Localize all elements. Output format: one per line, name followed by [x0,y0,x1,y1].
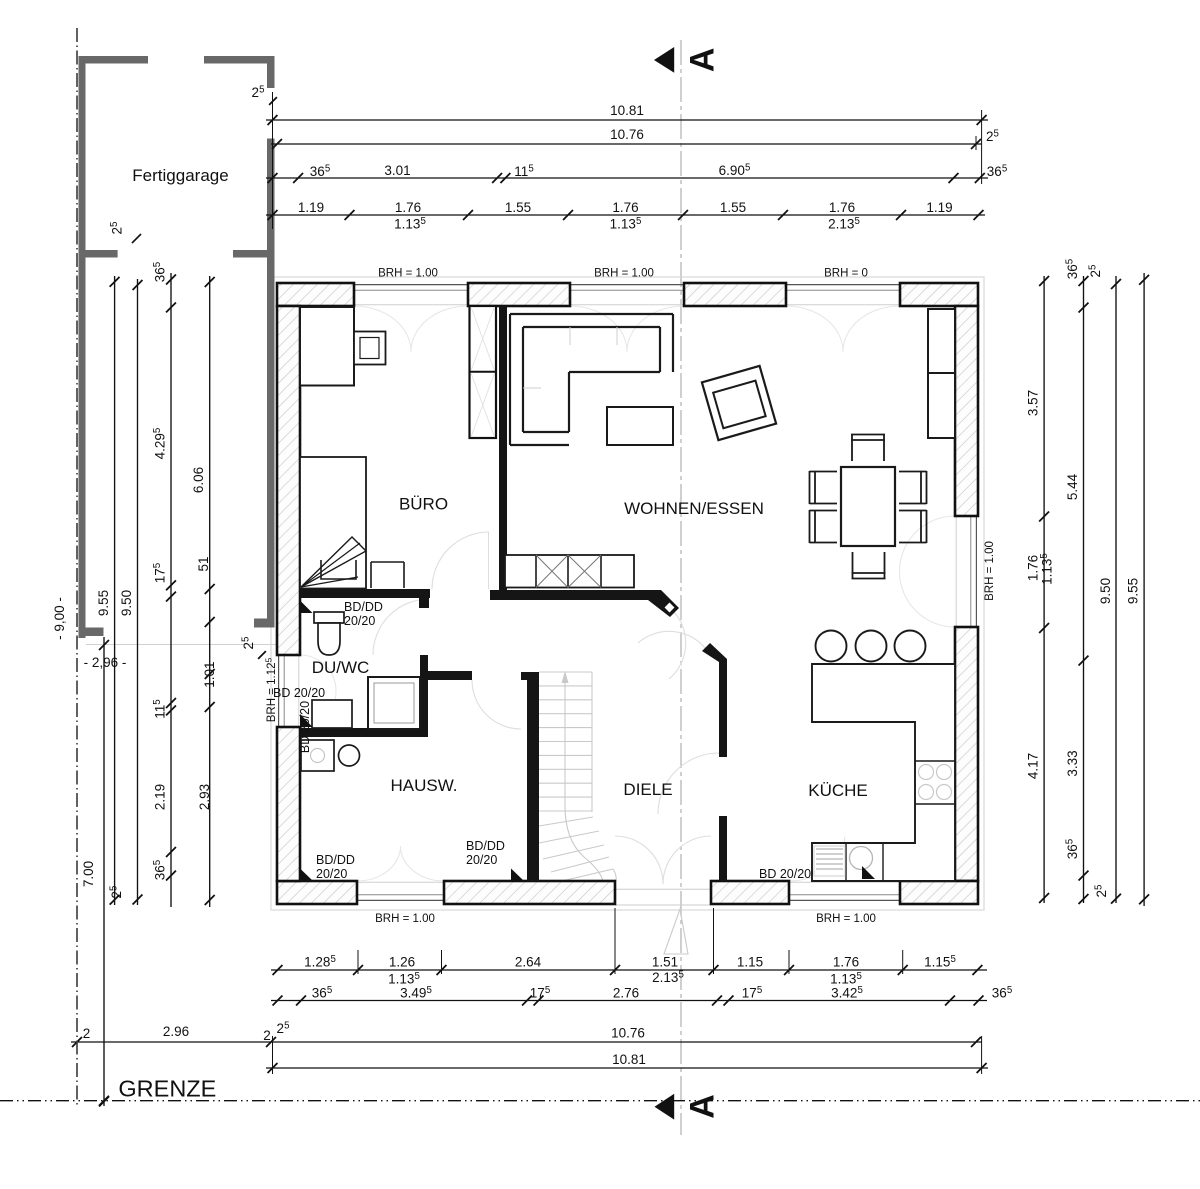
svg-text:BRH = 1.00: BRH = 1.00 [375,913,435,925]
svg-text:BRH = 1.00: BRH = 1.00 [594,268,654,280]
svg-text:1.76: 1.76 [612,200,638,215]
svg-text:10.81: 10.81 [610,103,644,118]
svg-text:1.15: 1.15 [737,955,763,970]
svg-text:GRENZE: GRENZE [118,1076,216,1102]
svg-text:1.26: 1.26 [389,955,415,970]
svg-text:KÜCHE: KÜCHE [808,781,868,800]
svg-text:2.64: 2.64 [515,955,542,970]
svg-text:BD/DD: BD/DD [344,600,383,614]
svg-text:5.44: 5.44 [1065,473,1080,500]
svg-text:A: A [683,1094,721,1119]
svg-text:2.19: 2.19 [153,784,168,810]
svg-text:DU/WC: DU/WC [312,658,370,677]
svg-text:BD 20/20: BD 20/20 [273,686,325,700]
svg-text:9.50: 9.50 [1098,578,1113,604]
svg-text:10.81: 10.81 [612,1052,646,1067]
svg-text:BD 20/20: BD 20/20 [759,867,811,881]
svg-text:1.01: 1.01 [202,661,217,687]
svg-text:4.17: 4.17 [1026,753,1041,779]
svg-text:3.01: 3.01 [384,163,410,178]
svg-text:1.76: 1.76 [395,200,421,215]
svg-text:2.93: 2.93 [197,784,212,810]
svg-text:9.50: 9.50 [119,590,134,616]
svg-text:1.19: 1.19 [926,200,952,215]
svg-text:1.51: 1.51 [652,955,678,970]
svg-text:Fertiggarage: Fertiggarage [132,166,228,185]
svg-text:1.19: 1.19 [298,200,324,215]
svg-text:1.76: 1.76 [833,955,859,970]
svg-text:BRH = 1.00: BRH = 1.00 [378,268,438,280]
svg-text:1.55: 1.55 [720,200,746,215]
svg-text:HAUSW.: HAUSW. [390,776,457,795]
svg-text:6.06: 6.06 [191,467,206,493]
svg-text:1.76: 1.76 [829,200,855,215]
svg-text:10.76: 10.76 [610,127,644,142]
svg-text:A: A [683,48,721,73]
svg-text:BÜRO: BÜRO [399,495,448,514]
svg-text:20/20: 20/20 [466,853,497,867]
svg-text:2.96: 2.96 [163,1024,189,1039]
svg-text:BD/DD: BD/DD [466,839,505,853]
svg-text:3.33: 3.33 [1065,750,1080,776]
svg-text:WOHNEN/ESSEN: WOHNEN/ESSEN [624,499,764,518]
svg-text:20/20: 20/20 [316,867,347,881]
svg-text:DIELE: DIELE [623,780,672,799]
svg-text:2: 2 [263,1028,271,1043]
svg-text:9.55: 9.55 [96,590,111,616]
svg-text:BRH = 1.00: BRH = 1.00 [984,541,996,601]
svg-text:BD 20/20: BD 20/20 [298,701,312,753]
svg-text:- 2,96 -: - 2,96 - [84,655,127,670]
svg-text:2: 2 [83,1026,91,1041]
svg-text:10.76: 10.76 [611,1026,645,1041]
svg-text:- 9,00 -: - 9,00 - [52,597,67,640]
svg-text:BD/DD: BD/DD [316,853,355,867]
svg-text:3.57: 3.57 [1026,390,1041,416]
svg-text:2.76: 2.76 [613,986,639,1001]
svg-text:20/20: 20/20 [344,614,375,628]
svg-text:BRH = 1.00: BRH = 1.00 [816,913,876,925]
svg-text:9.55: 9.55 [1126,578,1141,604]
svg-text:1.55: 1.55 [505,200,531,215]
svg-text:7.00: 7.00 [81,861,96,887]
svg-text:51: 51 [196,556,211,571]
svg-text:BRH = 0: BRH = 0 [824,268,868,280]
